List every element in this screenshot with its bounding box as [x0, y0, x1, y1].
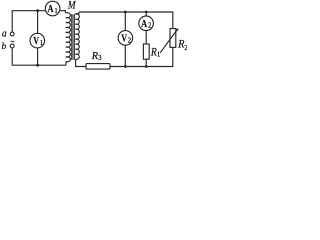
voltmeter V1 circle: [30, 33, 45, 48]
wire secondary top rail: [79, 12, 173, 29]
terminal b: [10, 44, 14, 48]
ammeter A2 circle: [139, 16, 154, 31]
svg-text:3: 3: [98, 55, 102, 62]
wire R2 bottom lead and secondary bottom rail: [110, 47, 173, 66]
node junction bottom of V1 branch: [36, 64, 39, 67]
wire secondary coil bottom lead: [76, 59, 86, 66]
rheostat R2 box: [170, 29, 176, 48]
wire A1 to primary coil top: [60, 11, 66, 13]
rheostat R2 arrow: [160, 28, 178, 53]
svg-text:b: b: [2, 42, 7, 52]
node junction top of V2 branch: [124, 11, 127, 14]
resistor R3 box: [86, 64, 110, 70]
wire top-left from terminal a up and right to A1: [12, 11, 45, 33]
svg-text:2: 2: [128, 37, 132, 44]
svg-text:R: R: [150, 46, 157, 58]
node junction top of A2 branch: [145, 11, 148, 14]
node junction top of V1 branch: [36, 9, 39, 12]
transformer core line 2: [73, 14, 75, 60]
wire V2 branch top lead: [124, 12, 126, 31]
wire V2 branch bottom lead: [124, 45, 126, 66]
voltmeter V2 circle: [118, 31, 133, 46]
wire bottom-left from terminal b down and right to primary coil: [12, 48, 66, 65]
svg-text:V: V: [121, 32, 127, 44]
svg-text:2: 2: [184, 45, 187, 52]
svg-text:A: A: [48, 3, 54, 15]
wire A2 to R1: [145, 31, 147, 44]
wire A2 branch top lead: [145, 12, 147, 16]
transformer primary coil: [65, 13, 70, 62]
wire V1 top lead: [37, 11, 39, 34]
svg-text:M: M: [67, 0, 76, 12]
svg-text:R: R: [177, 39, 184, 51]
svg-text:A: A: [141, 18, 147, 30]
node junction bottom of V2 branch: [124, 65, 127, 68]
svg-text:V: V: [33, 35, 39, 47]
resistor R1 box: [143, 44, 149, 59]
svg-text:1: 1: [157, 51, 160, 58]
wire V1 bottom lead: [37, 48, 39, 65]
svg-text:1: 1: [40, 40, 43, 47]
wire secondary coil top step to rail: [76, 12, 79, 14]
transformer core line 1: [71, 14, 73, 60]
wire R1 bottom lead: [145, 59, 147, 66]
svg-text:2: 2: [148, 23, 152, 30]
svg-text:1: 1: [54, 8, 57, 15]
wire primary coil bottom lead: [65, 61, 67, 65]
terminal a: [10, 32, 14, 36]
node junction bottom of R1 branch: [145, 65, 148, 68]
ammeter A1 circle: [45, 1, 60, 16]
svg-text:a: a: [2, 28, 7, 39]
transformer secondary coil: [75, 14, 79, 59]
AC source tilde: [11, 41, 15, 42]
